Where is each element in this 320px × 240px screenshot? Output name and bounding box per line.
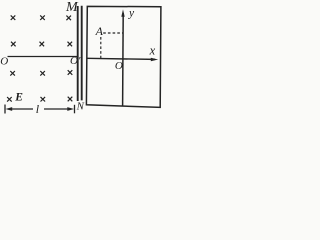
dimension line left segment [12,108,34,110]
dimension left tick [4,105,6,114]
screen box frame (right region border) [86,6,160,107]
magnetic field region B (into page) crosses row 1 [11,15,71,20]
svg-text:N: N [76,101,85,113]
svg-text:x: x [149,44,156,58]
magnetic field crosses row 4 [7,97,72,102]
dashed line from A down to x-axis (vertical) [100,37,102,58]
svg-text:l: l [36,102,40,116]
svg-text:O: O [115,60,123,72]
y-axis shaft [122,13,125,106]
x-axis shaft [87,58,155,59]
svg-text:M: M [65,0,79,15]
dashed line from A to y-axis (horizontal) [103,32,122,34]
svg-text:E: E [14,91,23,103]
svg-text:O: O [0,56,8,68]
magnetic field crosses row 3 [10,70,72,75]
svg-text:A: A [95,24,104,38]
dimension right arrow [67,107,74,111]
x-axis arrowhead [151,58,158,61]
plate/screen bar M (left line of MN boundary) [77,6,79,101]
svg-text:y: y [128,7,135,19]
dimension line right segment [44,108,69,110]
wire: horizontal beam axis line from O to O' [8,56,78,58]
dimension right tick [74,105,76,114]
y-axis arrowhead [121,9,124,16]
svg-text:O′: O′ [70,55,81,67]
plate/screen bar N (right line of MN boundary) [81,6,83,101]
dimension left arrow [5,107,12,111]
magnetic field crosses row 2 [11,42,72,47]
